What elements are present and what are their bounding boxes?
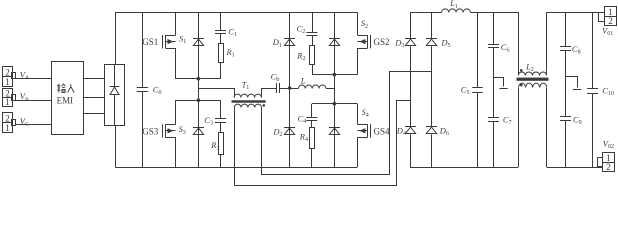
transistor S1 (MOSFET) [163,35,176,49]
svg-text:2: 2 [606,162,611,172]
svg-text:GS2: GS2 [374,37,390,47]
ground stub capacitor 1 [494,78,508,89]
label GS4 [374,126,391,136]
node left leg A [197,77,201,81]
label R4 [299,132,308,144]
capacitor C5 [472,12,483,167]
label D6 [439,125,449,137]
wire EMI to rectifier 1 [83,78,105,80]
label VC [20,116,29,128]
wire J3 to EMI [16,124,52,126]
label S1 [179,34,186,45]
L2 polarity dot top [520,69,523,72]
rectifier block [105,64,125,125]
connector J1 (VA input) [3,67,16,87]
label D4 [396,125,406,137]
diode S3 body diode [193,100,204,167]
label R3 [210,140,219,152]
label T1 [242,80,249,91]
capacitor C1 [215,12,226,43]
wire rectifier to top rail [115,12,117,64]
wire left leg upper node row [176,78,221,80]
diode D3 [405,12,416,126]
resistor R2 [310,46,315,75]
capacitor C6 [488,12,499,117]
label L [300,75,306,85]
connector J3 (VC input) [3,113,16,133]
capacitor C7 [488,118,499,168]
node right leg A [333,73,337,77]
svg-text:GS3: GS3 [142,126,159,136]
label C3 [204,115,213,127]
label C2 [297,24,306,36]
label C10 [602,86,614,98]
label C1 [228,27,237,39]
wire S1 drain from top rail [175,12,177,35]
diode S1 body diode [193,12,204,78]
label V01 [602,26,613,38]
wire L2 bottom winding right leg [546,88,548,167]
diode D5 [426,12,437,126]
transformer T1 primary winding [234,94,261,97]
wire rectifier to bottom rail [115,125,117,167]
wire J2 to EMI [16,100,52,102]
diode D4 [405,127,416,168]
capacitor Cb (blocking) [277,83,290,93]
label L1 [449,0,457,10]
wire T1 secondary right leg [262,72,432,175]
connector J2 (VB input) [3,88,16,107]
wire T1 primary right to Cb [262,89,277,98]
transistor S2 (MOSFET mirrored) [357,35,370,49]
transistor S4 (MOSFET mirrored) [357,124,370,137]
wire right leg mid vertical [334,75,336,104]
label V02 [603,139,614,151]
wire right leg lower node row [312,103,357,105]
label VB [20,91,29,103]
resistor R3 [219,133,224,168]
label R1 [226,47,235,59]
label D5 [440,38,450,50]
label GS3 [142,126,159,136]
wire EMI to rectifier 3 [83,113,105,115]
capacitor C0 [137,12,148,167]
label C0 [153,85,162,97]
diode D1 [284,12,295,88]
inductor L [290,85,335,88]
wire S4 source to bottom rail [357,137,359,167]
wire left leg mid vertical [198,79,200,101]
svg-text:GS4: GS4 [374,126,391,136]
wire J1 to EMI [16,78,52,80]
ground stub capacitor 2 [566,77,582,90]
wire EMI to rectifier 2 [83,97,105,99]
wire left leg lower node row [176,100,221,102]
label S4 [362,108,369,119]
label C4 [298,114,307,126]
capacitor C3 [215,100,226,132]
wire secondary bottom rail right [547,167,603,169]
node Cb-L-D1-D2 [288,86,292,90]
wire S2 source down [357,48,359,75]
wire S3 source to bottom rail [175,137,177,167]
wire T1 secondary left leg [235,101,411,186]
label S3 [179,125,186,136]
wire node to T1 primary [199,89,235,98]
EMI filter block (input EMI) [52,62,84,135]
label C6 [501,42,510,54]
label C8 [572,44,581,56]
wire secondary bottom rail left [410,167,518,169]
svg-text:GS1: GS1 [142,37,158,47]
transformer T1 secondary winding [234,104,261,107]
label L2 [525,62,533,73]
svg-text:L: L [300,75,306,85]
capacitor C8 [560,12,571,116]
label D2 [272,126,282,138]
svg-text:2: 2 [5,113,10,123]
L2 core [517,78,549,81]
wire L2 top winding right leg [546,12,548,71]
wire L2 bottom winding left leg [518,88,520,167]
wire S2 drain from top rail [357,12,359,35]
label D3 [394,38,404,50]
wire S3 drain [175,100,177,124]
wire S1 source down [175,48,177,79]
label GS1 [142,37,158,47]
wire S4 drain [357,104,359,125]
T1 polarity dot [263,104,266,107]
node left leg B [197,98,201,102]
diode D2 [284,88,295,167]
transistor S3 (MOSFET) [163,124,176,137]
capacitor C10 [587,12,598,167]
transformer T1 core [232,100,266,102]
L2 polarity dot bottom [520,84,523,87]
wire secondary top rail with L1 [410,12,518,14]
svg-text:1: 1 [5,123,10,133]
label S2 [361,19,368,30]
diode S2 body diode [329,12,340,74]
inductor L2 bottom winding [519,83,547,87]
wire L2 top winding left leg [518,12,520,71]
resistor R4 [310,128,315,168]
wire secondary top rail right [547,12,599,14]
label C7 [503,115,512,127]
label C5 [461,85,470,97]
wire right leg upper node row [312,74,357,76]
svg-text:1: 1 [5,97,10,107]
capacitor C2 [307,12,318,46]
resistor R1 [219,44,224,79]
label D1 [272,37,282,49]
capacitor C4 [306,104,317,128]
wire bottom bus rail (primary) [115,167,357,169]
inductor L1 [442,9,471,13]
diode S4 body diode [329,104,340,167]
label C9 [573,114,582,126]
svg-text:1: 1 [5,77,10,87]
label VA [20,69,29,81]
connector V02 [598,153,615,172]
label GS2 [374,37,390,47]
node right leg B [333,102,337,106]
diode D6 [426,127,437,168]
svg-text:2: 2 [608,16,613,26]
wire top bus rail (primary) [115,12,357,14]
capacitor C9 [560,117,571,168]
inductor L2 top winding [518,71,546,75]
label Cb [271,72,280,84]
svg-text:EMI: EMI [57,96,74,106]
label R2 [296,51,305,63]
svg-text:2: 2 [5,67,10,77]
connector V01 [599,7,617,26]
